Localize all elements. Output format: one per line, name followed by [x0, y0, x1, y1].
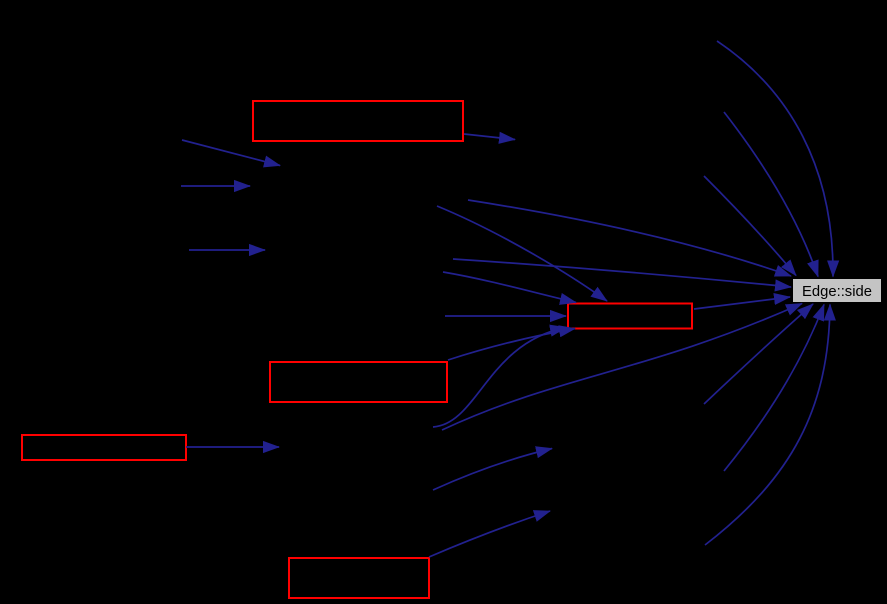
edge curved to hidden node mid-bottom 1: [433, 449, 552, 491]
edge from left caller 2 to hidden node: [181, 185, 250, 187]
edge curved to hidden node mid-bottom 2 from box E: [429, 511, 550, 557]
edge long curve to Edge::side bottom-left: [442, 304, 802, 431]
edge curve lower-middle to Edge::side bottom: [704, 304, 813, 404]
edge arc top 3 to Edge::side top-left: [704, 176, 796, 276]
node box B (red, center): [568, 304, 692, 329]
node Edge::side (gray, current function): [793, 279, 881, 302]
edge hidden node to box B top-left corner: [443, 272, 576, 303]
edge box B to Edge::side: [694, 297, 790, 309]
edge from left caller 1 to hidden node: [182, 140, 280, 166]
edge hidden node to box B top edge: [437, 206, 607, 301]
node box C (red, middle-left): [270, 362, 447, 402]
node box A (red, top): [253, 101, 463, 141]
edge s-curve hidden node to box B bottom-left: [433, 328, 566, 428]
edge from box D to hidden node: [186, 446, 279, 448]
edge tall arc top 1 to Edge::side top: [717, 41, 833, 277]
edge hidden node to box B left edge (horizontal): [445, 315, 566, 317]
node box D (red, bottom-left): [22, 435, 186, 460]
edge curve lower-right to Edge::side bottom: [724, 305, 824, 472]
node box E (red, bottom): [289, 558, 429, 598]
edge from left caller 3 to hidden node: [189, 249, 265, 251]
edge hidden node to Edge::side top-left (long straight): [468, 200, 791, 276]
edge hidden node to Edge::side left (long straight): [453, 259, 791, 287]
svg-text:Edge::side: Edge::side: [802, 284, 872, 300]
edge arc top 2 to Edge::side top: [724, 112, 818, 277]
edge from box A to hidden node: [464, 134, 515, 140]
edge tall curve bottom to Edge::side bottom: [705, 305, 830, 546]
edge box C to box B bottom-left: [448, 329, 575, 361]
